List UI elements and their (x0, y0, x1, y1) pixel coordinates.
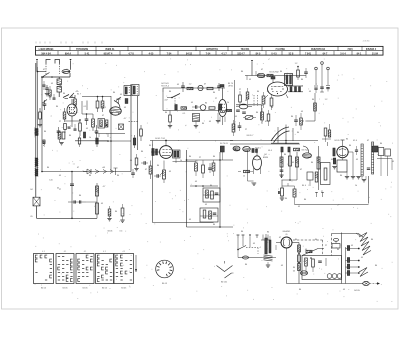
svg-text:05: 05 (101, 203, 103, 205)
svg-text:1.2: 1.2 (295, 63, 298, 65)
resistor R43 (96, 203, 99, 214)
valve pinout box B1 (34, 251, 54, 284)
cap C28 (279, 170, 283, 177)
resistor R49 (279, 180, 285, 200)
resistor R12 (129, 122, 143, 142)
arrow right of boxes (135, 255, 137, 272)
block top wire (163, 88, 225, 92)
svg-text:05: 05 (253, 243, 255, 245)
IF top row comp3 (294, 148, 300, 151)
cap C17 (238, 122, 242, 131)
resistor R2 (38, 108, 42, 127)
wire bus (75, 140, 108, 142)
wire mains (238, 253, 262, 258)
svg-text:05: 05 (189, 219, 191, 221)
wire h y160 (186, 159, 233, 161)
label V3 (269, 72, 279, 74)
svg-text:94 1: 94 1 (357, 52, 362, 55)
arrow lamp (370, 282, 381, 284)
svg-text:84: 84 (44, 131, 47, 133)
svg-text:47: 47 (204, 84, 206, 86)
antenna terminal A1 (36, 59, 38, 72)
cap C25 (208, 163, 212, 173)
diode D1 (83, 169, 99, 174)
top wire (245, 75, 295, 77)
resistor R29 (267, 110, 270, 126)
junction row y180 (282, 179, 298, 181)
svg-text:84: 84 (115, 211, 118, 213)
mains terminal M2 (242, 235, 245, 239)
resistor R14 (207, 87, 213, 89)
blob left of V6 (151, 149, 160, 156)
svg-text:7: 7 (50, 116, 51, 118)
trimmer C1 (45, 85, 49, 96)
svg-text:84 74 05: 84 74 05 (220, 143, 229, 145)
band switch L6 (236, 104, 252, 109)
small rect E4 (307, 172, 313, 186)
value labels left mid (47, 167, 120, 213)
svg-text:4 05: 4 05 (149, 52, 154, 55)
resistor R26 (270, 94, 273, 110)
svg-text:4 1: 4 1 (123, 251, 126, 253)
svg-text:05: 05 (286, 234, 288, 236)
osc coil L5 (257, 73, 265, 77)
tube V1 UCH42 (67, 99, 77, 121)
svg-text:05: 05 (343, 289, 345, 291)
value labels mid right (284, 154, 333, 208)
svg-text:84: 84 (271, 107, 274, 109)
box X3 (33, 197, 40, 206)
vertical x281 (281, 152, 283, 178)
svg-text:4 1 7: 4 1 7 (221, 52, 227, 55)
svg-text:84 05 7: 84 05 7 (247, 135, 255, 137)
cap C13 (175, 105, 177, 111)
valve pinout box B2 (56, 251, 74, 284)
cluster caps (236, 110, 246, 113)
grid stopper R18 (168, 111, 172, 128)
cap C14 (192, 105, 200, 109)
svg-text:84: 84 (304, 199, 307, 201)
vertical x290 (289, 152, 291, 180)
svg-text:4 1: 4 1 (103, 251, 106, 253)
pinout box labels (41, 288, 127, 290)
bias resistor R5 (58, 132, 65, 145)
anode load R8 (96, 96, 99, 112)
bottom wire lamps (287, 283, 363, 285)
header note top right (363, 41, 371, 43)
svg-text:84: 84 (257, 91, 260, 93)
svg-text:84: 84 (205, 103, 208, 105)
value labels converter (233, 63, 327, 134)
resistor R45 (120, 204, 124, 222)
label block (161, 83, 170, 88)
title block table (36, 46, 384, 55)
svg-text:27: 27 (215, 98, 217, 100)
resistor R34 (238, 170, 253, 172)
contact arrows (103, 168, 118, 175)
resistor R23 (239, 91, 242, 106)
svg-text:47: 47 (300, 169, 302, 171)
svg-text:84: 84 (213, 224, 216, 226)
svg-text:05: 05 (249, 79, 251, 81)
valve pinout box B4 (96, 251, 114, 284)
wire+gnd (243, 150, 256, 185)
svg-text:84 05: 84 05 (334, 140, 340, 142)
cap C21 (367, 168, 370, 169)
svg-text:L4GB MB694: L4GB MB694 (39, 48, 54, 51)
cap C4b (68, 127, 71, 128)
svg-text:84: 84 (189, 156, 192, 158)
resistor R50 (282, 183, 296, 205)
svg-text:47: 47 (367, 140, 369, 142)
svg-text:47: 47 (77, 167, 79, 169)
svg-text:84: 84 (264, 154, 267, 156)
lever diagonal (302, 249, 324, 256)
cap C4c (74, 124, 77, 130)
svg-text:27: 27 (321, 191, 323, 193)
svg-text:84: 84 (165, 112, 168, 114)
vertical x297 (296, 152, 298, 180)
svg-text:84: 84 (89, 175, 92, 177)
svg-text:EM34: EM34 (263, 157, 269, 159)
svg-text:27: 27 (245, 129, 247, 131)
tube V2 UF41 (218, 88, 226, 117)
svg-text:84 UCH42: 84 UCH42 (269, 72, 279, 74)
resistor R35 (134, 154, 138, 171)
tuning gang C18 (271, 125, 299, 145)
svg-text:84 7: 84 7 (77, 94, 82, 96)
gram wire down (300, 93, 316, 121)
dark bar C4d (83, 132, 85, 138)
svg-text:1k: 1k (89, 137, 91, 139)
osc coil L4 (110, 101, 122, 116)
tube V1 top cap (69, 95, 75, 98)
wire stubs (247, 71, 285, 80)
value labels input stage (43, 69, 126, 139)
resistor R40 (212, 160, 215, 176)
switch dash link (246, 248, 258, 255)
svg-text:4 1: 4 1 (84, 251, 87, 253)
label V4 (263, 154, 269, 159)
svg-text:05: 05 (331, 159, 333, 161)
heater wire (262, 245, 276, 258)
svg-text:84: 84 (280, 71, 283, 73)
antenna terminal A2 (69, 59, 71, 70)
mains terminal M4 (256, 235, 259, 239)
svg-text:05: 05 (292, 162, 294, 164)
resistor R1 (74, 95, 77, 108)
svg-text:05: 05 (267, 91, 269, 93)
grid comp left (333, 148, 335, 156)
svg-text:784 051: 784 051 (241, 48, 250, 51)
svg-text:05: 05 (30, 216, 33, 218)
power transformer T6 (264, 234, 273, 261)
svg-text:7 64: 7 64 (206, 52, 211, 55)
svg-text:417: 417 (164, 100, 168, 102)
svg-text:1k: 1k (261, 105, 263, 107)
resistor R42 (96, 186, 99, 196)
switch bank box B (132, 85, 139, 96)
second bus x42 (41, 76, 43, 171)
padder C2 (63, 93, 74, 99)
resistor R48 (296, 157, 299, 167)
cathode resistor R4 (64, 124, 67, 134)
value labels power (241, 231, 378, 291)
resistor R52 (324, 168, 327, 180)
svg-text:84 05: 84 05 (102, 288, 108, 290)
smoothing chain (298, 243, 301, 284)
IF row label (302, 150, 310, 152)
title block row2 text (41, 52, 378, 55)
label V7 (283, 230, 292, 236)
resistor R25 (262, 92, 265, 108)
valve circle (200, 105, 206, 111)
title block row1 text (39, 48, 377, 51)
mains terminal M3 (249, 235, 251, 248)
svg-text:7674 9-4: 7674 9-4 (161, 86, 170, 88)
bottom bus left (37, 218, 98, 220)
svg-text:27: 27 (199, 157, 201, 159)
svg-text:52 8: 52 8 (289, 52, 294, 55)
svg-text:47: 47 (145, 169, 147, 171)
grid leak R6 (79, 119, 82, 136)
svg-text:UF41: UF41 (228, 86, 234, 88)
svg-text:4.7 8: 4.7 8 (128, 52, 134, 55)
small comp x42 (43, 140, 46, 146)
svg-text:84: 84 (375, 265, 378, 267)
cap C12 (217, 83, 221, 91)
svg-text:4 1: 4 1 (42, 251, 45, 253)
ganged cap C3 (43, 100, 48, 111)
switch dashes (254, 95, 258, 106)
bottom wire y227 (187, 226, 234, 228)
svg-text:84 05 7 84: 84 05 7 84 (155, 138, 165, 140)
svg-text:0 4: 0 4 (120, 231, 123, 233)
resistor R1b (49, 86, 51, 100)
label s3 (164, 100, 168, 102)
svg-text:1k: 1k (355, 185, 357, 187)
resistor R51 (317, 157, 320, 169)
tube pin wire (348, 152, 353, 176)
svg-text:84: 84 (141, 151, 144, 153)
svg-text:84 05: 84 05 (41, 288, 47, 290)
coil E3 (303, 153, 312, 158)
grounds row right (345, 172, 366, 182)
vertical x72 (71, 172, 73, 219)
trimmer C8 (116, 97, 121, 104)
gram terminal G3 (327, 67, 330, 85)
cap C19 (294, 115, 298, 126)
label V1 (77, 94, 82, 96)
resistor R30 (300, 113, 303, 130)
label mid (220, 143, 229, 145)
resistor R22 (326, 86, 330, 92)
cap in x72 (70, 184, 74, 185)
svg-text:84: 84 (337, 249, 340, 251)
switch bank box A (124, 86, 131, 96)
volume pot R37 (160, 161, 166, 184)
svg-text:84 05: 84 05 (162, 283, 168, 285)
svg-text:84: 84 (311, 162, 314, 164)
value labels AF (130, 151, 216, 226)
resistor R16 (209, 107, 215, 109)
heater chain wire top (332, 234, 364, 238)
switch S4 (243, 115, 256, 119)
resistor R21 (314, 86, 318, 93)
svg-text:84: 84 (284, 154, 287, 156)
wire arrow right (233, 148, 238, 150)
svg-text:7674/06/89: 7674/06/89 (76, 48, 89, 51)
value labels right out (340, 140, 394, 187)
svg-text:05: 05 (361, 257, 363, 259)
small parts (306, 250, 312, 259)
svg-text:84 0: 84 0 (302, 185, 307, 187)
tube V4 EM34 magic eye (253, 148, 262, 174)
IF top row comp1 (281, 147, 283, 152)
resistor R10 (78, 136, 80, 147)
wire x152 top (152, 141, 154, 149)
svg-text:05: 05 (130, 160, 132, 162)
terminal bracket S1a (46, 60, 51, 75)
label osc (102, 94, 123, 109)
svg-text:84 1: 84 1 (102, 107, 107, 109)
wire y140 long (150, 138, 233, 141)
svg-text:84: 84 (267, 232, 270, 234)
wire y204 (295, 204, 369, 206)
svg-text:A05527/7A: A05527/7A (206, 48, 218, 51)
resistor R46 (280, 157, 283, 167)
svg-text:05: 05 (301, 111, 303, 113)
transformer ground (266, 262, 270, 267)
svg-text:90147 4: 90147 4 (104, 52, 113, 55)
wire h y105 (236, 105, 262, 120)
dial cord label (221, 282, 228, 284)
vertical x97 (96, 183, 98, 218)
svg-text:1k: 1k (180, 160, 182, 162)
svg-text:594 4 84: 594 4 84 (41, 52, 51, 55)
AVC bus wire (41, 171, 131, 173)
svg-text:05: 05 (191, 102, 193, 104)
svg-text:84: 84 (63, 93, 66, 95)
svg-text:84: 84 (79, 195, 82, 197)
wave switch S2 (41, 73, 53, 78)
tube V2 grid cap (220, 85, 224, 88)
svg-text:05: 05 (298, 206, 300, 208)
svg-text:0.1: 0.1 (183, 113, 186, 115)
dial cord sketch (217, 261, 234, 278)
tube V2 pins (220, 117, 225, 126)
network box2 (200, 208, 218, 222)
resistor R36 (149, 161, 152, 180)
svg-text:1.2: 1.2 (325, 99, 328, 101)
coil E2 (243, 146, 251, 151)
labels top right (334, 139, 357, 143)
svg-text:84: 84 (56, 106, 59, 108)
vertical x318 long (315, 146, 324, 197)
mech link upper (293, 240, 323, 256)
HT label (293, 267, 296, 273)
svg-text:84: 84 (30, 189, 33, 191)
svg-text:47: 47 (265, 121, 267, 123)
svg-text:5 6 4: 5 6 4 (340, 52, 346, 55)
wire y202 caps (68, 200, 97, 203)
grid cap C24 (154, 174, 161, 178)
svg-text:141: 141 (49, 180, 52, 182)
long wire down x368 (368, 176, 370, 204)
svg-text:05: 05 (281, 265, 283, 267)
wire long bus y141 (95, 140, 131, 142)
svg-text:84: 84 (291, 116, 294, 118)
zigzag lower (359, 268, 368, 277)
svg-text:84 051: 84 051 (221, 282, 228, 284)
resistor R15 (181, 107, 187, 109)
svg-text:84: 84 (213, 92, 216, 94)
svg-text:84: 84 (157, 165, 160, 167)
arc into E3 (303, 146, 309, 153)
main vertical x186 (186, 150, 188, 227)
box below tube (337, 158, 347, 172)
resistor R41 top (220, 146, 224, 160)
resistor R44 (107, 206, 111, 221)
main vertical bus x137 (137, 96, 139, 150)
svg-text:84: 84 (213, 156, 216, 158)
svg-text:4.7: 4.7 (103, 186, 106, 188)
svg-text:7 841: 7 841 (305, 52, 312, 55)
svg-text:84: 84 (117, 175, 120, 177)
svg-text:05: 05 (293, 271, 296, 273)
padder C9 (125, 99, 128, 104)
bottom wires conv (230, 140, 318, 144)
label V2 (228, 83, 234, 88)
svg-text:47: 47 (102, 115, 104, 117)
svg-text:47: 47 (279, 237, 281, 239)
svg-text:84: 84 (349, 145, 352, 147)
IF can top cluster (322, 124, 331, 146)
resistor R24 (246, 88, 249, 104)
dial drum circle (156, 260, 174, 278)
svg-text:47: 47 (43, 69, 45, 71)
svg-text:47k: 47k (75, 91, 78, 93)
dial drum ticks (157, 261, 172, 276)
coil switch box (98, 119, 105, 129)
aerial coil L1 core (35, 129, 39, 136)
svg-text:84 7: 84 7 (149, 145, 154, 147)
svg-text:84 05: 84 05 (62, 288, 68, 290)
wire (52, 76, 70, 78)
svg-text:6/52GB 4: 6/52GB 4 (366, 48, 377, 51)
output trafo T5 (173, 150, 197, 163)
svg-text:4 1: 4 1 (64, 251, 67, 253)
svg-text:1.2: 1.2 (189, 84, 192, 86)
valve pinout box B3 (76, 251, 94, 284)
vertical wire x234 (234, 80, 236, 130)
svg-text:4: 4 (259, 247, 261, 249)
svg-text:84 AZ41: 84 AZ41 (283, 230, 292, 233)
valve dot V (198, 85, 203, 90)
resistor R47 (289, 156, 292, 166)
rectifier V7 AZ41 (276, 237, 299, 248)
resistor R13 (187, 87, 193, 89)
valve pinout box B5 (114, 251, 134, 284)
HT wire down (286, 248, 288, 284)
wire (37, 71, 46, 73)
unit left vertical (341, 233, 343, 284)
svg-text:84 05: 84 05 (108, 231, 113, 233)
svg-text:694 A: 694 A (65, 52, 72, 55)
svg-text:84: 84 (202, 123, 205, 125)
svg-text:05: 05 (103, 167, 105, 169)
svg-text:5 41: 5 41 (85, 52, 90, 55)
